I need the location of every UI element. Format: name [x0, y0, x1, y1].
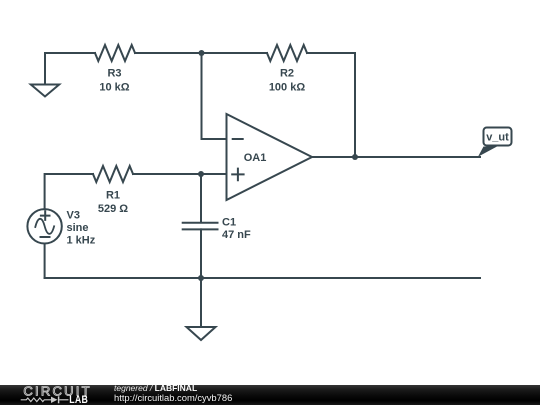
svg-text:100 kΩ: 100 kΩ [269, 82, 306, 94]
wire: R1 to op-amp non-inverting input [133, 173, 227, 175]
resistor R3 [95, 45, 135, 61]
resistor R1 [93, 166, 133, 182]
svg-text:529 Ω: 529 Ω [98, 203, 128, 215]
svg-text:10 kΩ: 10 kΩ [99, 82, 129, 94]
v_ut flag pointer [478, 147, 497, 157]
V3 plus polarity mark [41, 211, 50, 220]
resistor R2 [267, 45, 307, 61]
V3 minus polarity mark [41, 236, 50, 238]
svg-text:R3: R3 [107, 68, 121, 80]
wire: op-amp output to v_ut flag [312, 156, 480, 158]
op-amp inverting pin minus sign [233, 138, 243, 140]
wire: R3 to R2 along top net [135, 52, 267, 54]
footer bar [0, 385, 540, 405]
svg-text:C1: C1 [222, 217, 236, 229]
wire: rail junction down to ground GND2 [200, 278, 202, 327]
wire: V3 bottom down to ground rail [44, 244, 46, 279]
svg-text:sine: sine [67, 222, 89, 234]
CircuitLab logo [0, 384, 110, 405]
svg-text:OA1: OA1 [244, 152, 267, 164]
op-amp non-inverting pin plus sign [232, 169, 243, 181]
wire: V3 top up to R1 left lead [45, 174, 93, 209]
svg-text:R2: R2 [280, 68, 294, 80]
credit text tegnered / LABFINAL [114, 384, 197, 393]
node flag v_ut [484, 128, 512, 146]
wire: branch down to op-amp inverting input [202, 53, 227, 139]
wire: C1 bottom plate down to bottom rail [200, 229, 202, 278]
ground GND2 [187, 327, 216, 340]
wire: ground GND1 up and right to R3 left lead [45, 53, 95, 85]
wire: bottom rail [45, 277, 480, 279]
node junction at top net branch [199, 50, 205, 56]
wire: R2 right lead down to output node [307, 53, 355, 157]
svg-text:R1: R1 [106, 190, 120, 202]
node junction on bottom rail [198, 275, 204, 281]
V3 sine waveform symbol [35, 219, 54, 234]
svg-text:LAB: LAB [69, 394, 88, 405]
voltage source V3 circle [27, 209, 61, 243]
svg-text:V3: V3 [67, 210, 80, 222]
node junction at non-inverting input [198, 171, 204, 177]
op-amp U1 OA1 triangle [227, 114, 313, 200]
credit url [114, 393, 232, 403]
ground GND1 [31, 85, 59, 97]
wire: branch down to C1 top plate [200, 174, 202, 222]
svg-text:47 nF: 47 nF [222, 229, 251, 241]
node junction at output feedback branch [352, 154, 358, 160]
capacitor C1 [183, 223, 218, 230]
svg-text:1 kHz: 1 kHz [67, 235, 96, 247]
svg-text:v_ut: v_ut [486, 132, 509, 144]
